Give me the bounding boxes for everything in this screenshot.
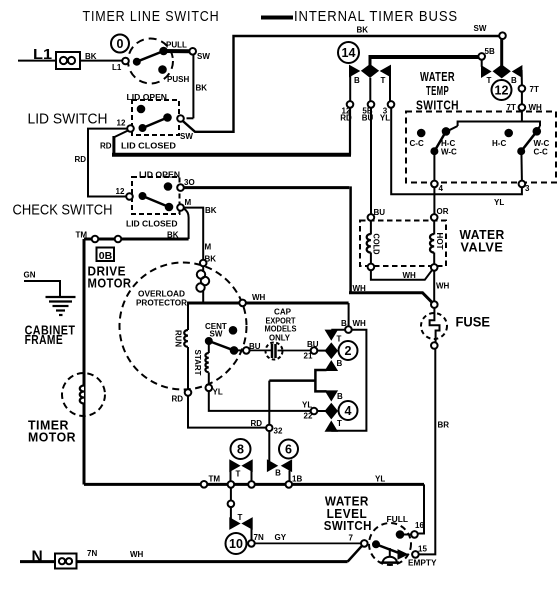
terminal BU valve	[368, 214, 375, 221]
terminal M	[177, 204, 184, 211]
wire timer motor riser (thick)	[83, 239, 86, 485]
timer cam 2 contact	[326, 331, 336, 339]
terminal 1B	[286, 481, 293, 488]
svg-text:W-C: W-C	[441, 148, 457, 157]
terminal fuse bottom	[431, 342, 438, 349]
wire N (thick)	[20, 560, 56, 563]
svg-text:7N: 7N	[254, 533, 264, 542]
contact PUSH	[159, 66, 166, 73]
timer cam 8 contact	[230, 461, 238, 470]
svg-text:7N: 7N	[87, 549, 97, 558]
svg-text:B: B	[337, 392, 343, 401]
svg-text:BK: BK	[357, 26, 369, 35]
wire loop around cams 2/4	[331, 330, 366, 431]
svg-text:H-C: H-C	[492, 139, 506, 148]
cold solenoid	[370, 221, 372, 235]
motor frame top (thick)	[187, 302, 349, 305]
svg-text:1B: 1B	[292, 475, 302, 484]
hot solenoid	[433, 221, 435, 235]
terminal 5B BU	[368, 101, 375, 108]
svg-text:8: 8	[237, 443, 244, 457]
wire BU to capacitor	[250, 349, 271, 351]
svg-text:B: B	[275, 469, 281, 478]
svg-text:5B: 5B	[485, 47, 495, 56]
svg-text:START: START	[193, 350, 202, 376]
svg-text:INTERNAL TIMER BUSS: INTERNAL TIMER BUSS	[294, 8, 458, 25]
junction circle	[228, 501, 235, 508]
svg-text:T: T	[487, 76, 492, 85]
timer cam 0	[111, 35, 129, 53]
svg-text:WATER: WATER	[420, 70, 455, 84]
wire junction to cam 10	[230, 488, 232, 519]
terminal cam8 right	[248, 481, 255, 488]
svg-text:CAP: CAP	[274, 308, 292, 317]
svg-text:BK: BK	[205, 206, 217, 215]
svg-text:OR: OR	[437, 207, 449, 216]
timer cam 6 contact	[268, 461, 276, 470]
timer cam 14 contact	[350, 66, 358, 75]
wire TM buss (thick)	[84, 483, 424, 486]
svg-text:MODELS: MODELS	[265, 325, 298, 334]
wire lid 12 to check 12	[88, 129, 127, 197]
svg-text:7T: 7T	[530, 85, 539, 94]
svg-text:MOTOR: MOTOR	[88, 276, 132, 290]
label box 0B	[97, 248, 115, 262]
junction 32	[266, 425, 272, 431]
svg-text:22: 22	[304, 412, 313, 421]
timer cam 10 number	[226, 533, 247, 554]
wire TM/BK (thick)	[84, 238, 189, 241]
svg-text:4: 4	[439, 184, 444, 193]
svg-text:PUSH: PUSH	[167, 75, 189, 84]
svg-text:HOT: HOT	[435, 233, 444, 250]
svg-text:BK: BK	[85, 52, 97, 61]
terminal 3 YL	[388, 101, 395, 108]
terminal motor YL	[206, 385, 213, 392]
svg-text:YL: YL	[375, 475, 385, 484]
drive motor (dashed circle)	[120, 263, 247, 390]
wire SW to cam 12	[500, 39, 503, 67]
svg-text:SW: SW	[180, 132, 193, 141]
check switch arm	[140, 193, 146, 199]
svg-text:WH: WH	[252, 293, 266, 302]
contact C-C	[418, 130, 425, 137]
timer cam 2 number	[339, 341, 358, 360]
connector L1	[56, 52, 80, 69]
wire YL to water level	[418, 484, 424, 533]
wire B to 7T	[521, 70, 523, 85]
svg-text:SW: SW	[474, 24, 487, 33]
wire BK down from SW	[192, 55, 194, 119]
svg-text:C-C: C-C	[534, 148, 548, 157]
svg-text:T: T	[236, 470, 241, 479]
svg-text:BK: BK	[196, 84, 208, 93]
connector N	[55, 554, 77, 569]
contact lid open (check)	[165, 183, 172, 190]
svg-text:L1: L1	[112, 63, 122, 72]
svg-text:B: B	[354, 76, 360, 85]
overload protector heater	[197, 270, 205, 278]
svg-text:32: 32	[274, 427, 283, 436]
svg-text:T: T	[337, 335, 342, 344]
timer cam 4 number	[339, 401, 358, 420]
wire lid SW to buss riser	[183, 36, 500, 132]
terminal SW	[189, 48, 196, 55]
timer cam 12 number	[492, 80, 512, 100]
wire BK	[80, 60, 122, 62]
svg-text:RD: RD	[251, 419, 263, 428]
wire M to TM	[184, 209, 189, 239]
temp switch left arm	[443, 128, 450, 135]
svg-text:FRAME: FRAME	[25, 333, 64, 347]
svg-text:M: M	[205, 243, 212, 252]
wire valve common WH	[371, 270, 432, 280]
svg-text:12: 12	[116, 187, 125, 196]
svg-text:PULL: PULL	[166, 41, 187, 50]
wire GY	[255, 542, 361, 544]
wire hot down WH	[433, 271, 435, 302]
svg-text:M: M	[185, 198, 192, 207]
terminal 12 (lid)	[127, 125, 134, 132]
fuse element	[430, 308, 440, 343]
svg-text:T: T	[337, 419, 342, 428]
svg-text:B: B	[337, 359, 343, 368]
check switch box (dashed)	[132, 177, 180, 214]
timer cam 14 number	[338, 42, 359, 63]
svg-text:FULL: FULL	[387, 515, 409, 524]
terminal B WH	[345, 326, 352, 333]
wire YL 22	[209, 391, 311, 411]
svg-text:LID OPEN: LID OPEN	[139, 171, 180, 180]
svg-text:SW: SW	[210, 330, 223, 339]
terminal cold bottom	[368, 264, 375, 271]
svg-text:RD: RD	[100, 142, 112, 151]
contact H-C	[505, 130, 512, 137]
svg-text:C-C: C-C	[410, 139, 424, 148]
svg-text:21: 21	[304, 352, 313, 361]
svg-text:LID CLOSED: LID CLOSED	[126, 220, 178, 229]
wire 5B BU	[370, 108, 372, 214]
svg-text:SW: SW	[197, 52, 210, 61]
lid switch arm	[140, 125, 146, 131]
terminal 22 YL	[311, 408, 318, 415]
timer motor coil	[80, 386, 84, 404]
water level switch (dashed)	[369, 523, 411, 565]
temp switch right arm	[534, 128, 541, 135]
terminal OR valve	[431, 214, 438, 221]
terminal 7N	[248, 540, 255, 547]
svg-text:YL: YL	[380, 114, 390, 123]
svg-text:4: 4	[345, 404, 352, 418]
start winding	[208, 344, 210, 353]
wire L1 lead	[18, 60, 56, 62]
svg-text:SWITCH: SWITCH	[416, 99, 459, 113]
terminal 12 RD	[347, 101, 354, 108]
terminal 30	[177, 184, 184, 191]
run winding	[184, 330, 188, 347]
terminal fuse top	[431, 301, 438, 308]
switch arm	[134, 59, 140, 65]
svg-text:3: 3	[525, 184, 530, 193]
contact lid open	[138, 106, 145, 113]
wire RD (thick)	[115, 131, 129, 138]
wire diagonal to 7	[348, 546, 362, 561]
terminal 7	[361, 540, 368, 547]
terminal 15	[412, 551, 419, 558]
timer motor (dashed)	[62, 373, 105, 416]
svg-text:MOTOR: MOTOR	[28, 431, 76, 445]
svg-text:OVERLOAD: OVERLOAD	[138, 290, 185, 299]
terminal cam8 left	[228, 481, 235, 488]
svg-text:WH: WH	[130, 550, 144, 559]
svg-text:2: 2	[345, 344, 352, 358]
ground cabinet frame	[46, 297, 76, 315]
terminal SW (lid)	[177, 115, 184, 122]
wire 4 OR	[433, 187, 435, 214]
svg-text:BK: BK	[167, 231, 179, 240]
contact FULL	[397, 531, 404, 538]
terminal 21 BU	[311, 347, 318, 354]
svg-text:7: 7	[349, 534, 354, 543]
svg-text:15: 15	[418, 545, 427, 554]
svg-text:BR: BR	[438, 421, 450, 430]
svg-text:YL: YL	[213, 388, 223, 397]
terminal motor RD	[185, 389, 192, 396]
timer cam 4 contact	[326, 391, 336, 399]
contact EMPTY	[399, 551, 407, 559]
timer cam 6 number	[279, 440, 298, 459]
svg-text:RUN: RUN	[174, 330, 183, 347]
svg-text:16: 16	[415, 521, 424, 530]
svg-text:WH: WH	[436, 282, 450, 291]
svg-text:TM: TM	[209, 475, 221, 484]
svg-text:COLD: COLD	[372, 234, 381, 255]
wire 7T into box	[521, 111, 523, 122]
svg-text:GN: GN	[24, 271, 36, 280]
water valve box (dashed)	[360, 221, 446, 267]
terminal 5B	[478, 53, 485, 60]
timer line switch (dashed)	[128, 39, 173, 84]
legend INTERNAL TIMER BUSS	[261, 16, 293, 20]
svg-text:LID CLOSED: LID CLOSED	[121, 142, 176, 151]
svg-text:T: T	[238, 513, 243, 522]
svg-text:B: B	[341, 319, 347, 328]
wire M to motor BK	[184, 208, 203, 260]
svg-text:10: 10	[229, 537, 243, 551]
wire motor frame right	[348, 303, 350, 326]
motor frame left	[187, 303, 189, 330]
lid switch box (dashed)	[132, 100, 179, 135]
timer cam 12 contact	[482, 67, 490, 76]
water level arm	[373, 541, 379, 547]
svg-text:14: 14	[342, 46, 356, 60]
svg-text:RD: RD	[75, 155, 87, 164]
water temp switch box (dashed)	[406, 112, 556, 183]
svg-text:CHECK SWITCH: CHECK SWITCH	[13, 202, 113, 219]
terminal 4	[431, 181, 438, 188]
svg-text:EMPTY: EMPTY	[408, 559, 437, 568]
wire 3 YL	[391, 108, 522, 195]
svg-text:12: 12	[117, 119, 126, 128]
terminal 3	[519, 181, 526, 188]
internal timer buss (thick)	[369, 55, 479, 59]
wire 7N WH (thick)	[77, 560, 348, 563]
wire 30 to WH junction	[184, 186, 349, 189]
svg-text:PROTECTOR: PROTECTOR	[136, 299, 187, 308]
pressure dome	[389, 548, 391, 557]
terminal TM	[201, 481, 208, 488]
wire WH (thick)	[349, 293, 432, 303]
svg-text:TEMP: TEMP	[426, 84, 449, 98]
terminal 12 (check)	[126, 193, 133, 200]
svg-text:0: 0	[117, 37, 124, 51]
svg-text:ONLY: ONLY	[269, 334, 291, 343]
svg-text:FUSE: FUSE	[456, 314, 491, 330]
svg-text:0B: 0B	[99, 251, 113, 262]
capacitor (dashed circle)	[266, 343, 283, 360]
svg-text:YL: YL	[494, 198, 504, 207]
ground GN wire	[24, 281, 60, 297]
terminal 16	[411, 531, 418, 538]
svg-text:VALVE: VALVE	[461, 241, 504, 255]
wire bracket B-B	[315, 370, 326, 391]
svg-text:GY: GY	[275, 533, 287, 542]
svg-text:LID OPEN: LID OPEN	[127, 93, 168, 102]
svg-text:B: B	[511, 76, 517, 85]
wire capacitor to 21	[278, 350, 311, 352]
terminal 7T WH	[519, 104, 526, 111]
terminal SW buss	[499, 32, 506, 39]
svg-text:BU: BU	[374, 208, 386, 217]
timer cam 8 number	[231, 439, 251, 459]
svg-text:T: T	[381, 76, 386, 85]
svg-text:LID SWITCH: LID SWITCH	[28, 111, 108, 128]
terminal motor BU	[243, 347, 250, 354]
svg-text:TIMER LINE SWITCH: TIMER LINE SWITCH	[83, 8, 220, 25]
svg-text:RD: RD	[340, 114, 352, 123]
svg-text:3O: 3O	[184, 178, 195, 187]
terminal motor WH	[239, 300, 246, 307]
terminal L1	[122, 58, 129, 65]
svg-text:WH: WH	[353, 319, 367, 328]
wire RD 32	[188, 396, 267, 428]
fuse (dashed circle)	[421, 313, 447, 339]
svg-text:WH: WH	[353, 284, 367, 293]
svg-text:BU: BU	[307, 340, 319, 349]
wire BR	[434, 349, 436, 553]
wire 32 riser	[268, 381, 270, 425]
svg-text:YL: YL	[302, 401, 312, 410]
terminal hot bottom	[431, 264, 438, 271]
svg-text:SWITCH: SWITCH	[324, 519, 372, 533]
svg-text:6: 6	[285, 443, 292, 457]
svg-text:12: 12	[495, 84, 509, 98]
terminal motor BK	[200, 260, 207, 267]
wire to SW	[164, 49, 190, 53]
svg-text:WH: WH	[403, 271, 417, 280]
svg-text:RD: RD	[172, 395, 184, 404]
terminal 7T	[519, 85, 526, 92]
svg-text:TM: TM	[76, 231, 88, 240]
